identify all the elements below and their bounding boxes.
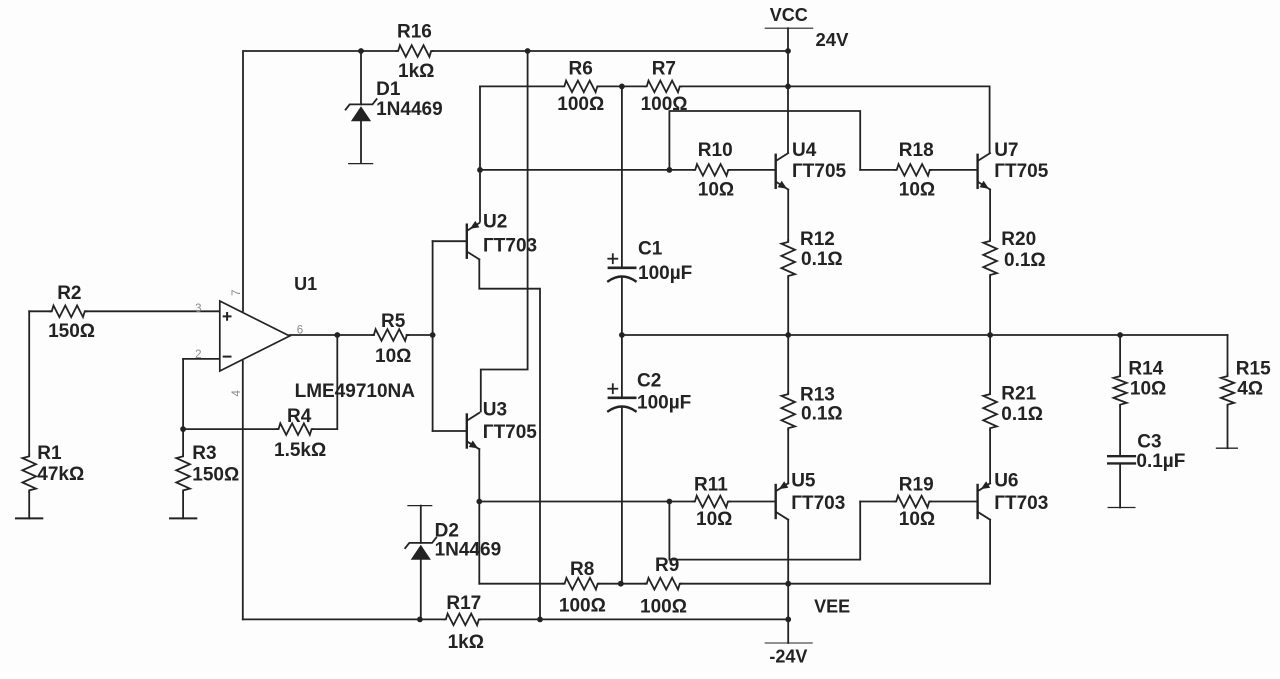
svg-text:4: 4 (231, 390, 243, 397)
svg-text:R21: R21 (1001, 384, 1036, 405)
svg-text:R11: R11 (694, 475, 728, 496)
svg-text:ГТ703: ГТ703 (483, 235, 537, 256)
svg-text:ГТ705: ГТ705 (994, 161, 1049, 182)
svg-text:100Ω: 100Ω (641, 94, 688, 115)
svg-text:LME49710NA: LME49710NA (295, 381, 416, 402)
svg-text:1kΩ: 1kΩ (398, 61, 434, 82)
svg-text:2: 2 (195, 349, 201, 361)
svg-text:0.1Ω: 0.1Ω (1004, 250, 1046, 271)
svg-text:R3: R3 (192, 443, 216, 464)
svg-text:R15: R15 (1236, 359, 1271, 380)
svg-text:ГТ705: ГТ705 (792, 161, 847, 182)
svg-text:100µF: 100µF (637, 393, 691, 414)
svg-text:100Ω: 100Ω (640, 596, 687, 617)
svg-text:24V: 24V (816, 29, 850, 50)
svg-text:6: 6 (297, 324, 303, 336)
svg-text:U1: U1 (294, 274, 317, 294)
svg-text:U2: U2 (483, 212, 507, 233)
svg-text:4Ω: 4Ω (1237, 379, 1263, 400)
svg-text:R10: R10 (698, 140, 733, 161)
svg-text:R9: R9 (655, 555, 679, 576)
svg-text:100Ω: 100Ω (557, 94, 604, 115)
svg-text:VEE: VEE (814, 596, 850, 616)
svg-text:ГТ703: ГТ703 (791, 493, 845, 514)
svg-text:C1: C1 (638, 239, 663, 260)
svg-text:47kΩ: 47kΩ (37, 464, 84, 485)
svg-text:R5: R5 (381, 311, 406, 332)
svg-text:10Ω: 10Ω (375, 346, 411, 367)
svg-text:R2: R2 (57, 283, 81, 304)
svg-text:R8: R8 (570, 559, 594, 580)
svg-text:1kΩ: 1kΩ (448, 632, 484, 653)
svg-text:3: 3 (195, 303, 201, 315)
svg-text:0.1Ω: 0.1Ω (801, 249, 843, 270)
svg-text:U5: U5 (791, 471, 816, 492)
svg-text:ГТ705: ГТ705 (483, 422, 538, 443)
svg-text:1N4469: 1N4469 (376, 99, 443, 120)
svg-text:R17: R17 (446, 593, 481, 614)
svg-text:R19: R19 (899, 475, 934, 496)
svg-text:VCC: VCC (770, 5, 808, 25)
svg-text:R13: R13 (800, 384, 835, 405)
svg-text:10Ω: 10Ω (1130, 379, 1166, 400)
svg-text:C3: C3 (1137, 431, 1161, 452)
svg-text:D1: D1 (376, 79, 401, 100)
svg-text:150Ω: 150Ω (192, 464, 239, 485)
svg-text:ГТ703: ГТ703 (994, 493, 1048, 514)
svg-text:R14: R14 (1128, 359, 1163, 380)
svg-text:C2: C2 (637, 371, 661, 392)
svg-text:R1: R1 (37, 443, 62, 464)
svg-text:R18: R18 (899, 140, 934, 161)
svg-text:7: 7 (231, 290, 243, 296)
svg-text:U3: U3 (483, 400, 507, 421)
svg-text:R6: R6 (569, 59, 593, 80)
svg-text:R16: R16 (397, 21, 432, 42)
svg-text:0.1µF: 0.1µF (1136, 451, 1185, 472)
svg-text:R12: R12 (800, 229, 835, 250)
svg-text:-24V: -24V (769, 646, 807, 666)
svg-text:10Ω: 10Ω (698, 180, 734, 201)
svg-text:1.5kΩ: 1.5kΩ (274, 440, 326, 461)
svg-text:U6: U6 (994, 471, 1018, 492)
svg-text:R7: R7 (652, 59, 676, 80)
svg-text:10Ω: 10Ω (899, 509, 935, 530)
svg-text:0.1Ω: 0.1Ω (1001, 404, 1043, 425)
svg-text:U4: U4 (792, 140, 817, 161)
svg-text:100µF: 100µF (638, 263, 692, 284)
svg-text:100Ω: 100Ω (559, 595, 606, 616)
svg-text:0.1Ω: 0.1Ω (801, 404, 843, 425)
svg-text:R20: R20 (1001, 229, 1036, 250)
svg-text:10Ω: 10Ω (899, 180, 935, 201)
svg-text:D2: D2 (435, 521, 459, 542)
svg-text:150Ω: 150Ω (48, 321, 95, 342)
svg-text:R4: R4 (287, 406, 312, 427)
svg-text:1N4469: 1N4469 (435, 540, 502, 561)
svg-text:U7: U7 (994, 140, 1018, 161)
svg-text:10Ω: 10Ω (696, 509, 732, 530)
